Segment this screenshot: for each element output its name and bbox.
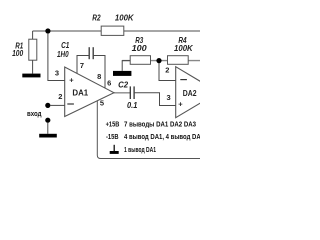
svg-text:0.1: 0.1 — [127, 100, 138, 110]
resistor R3 — [130, 56, 150, 65]
node input ground terminal — [45, 118, 50, 123]
legend line 3: ground symbol — [113, 145, 115, 151]
svg-text:5: 5 — [100, 99, 104, 108]
minus marker DA1 — [67, 103, 74, 105]
minus marker DA2 — [180, 79, 187, 81]
svg-text:вход: вход — [27, 109, 42, 118]
svg-text:6: 6 — [107, 79, 111, 88]
op-amp DA1 — [65, 67, 114, 117]
resistor R4 — [168, 56, 189, 65]
svg-text:3: 3 — [55, 69, 59, 78]
wire top feedback net R2 row — [33, 30, 200, 32]
wire node B to DA2 pin 2 — [159, 63, 176, 81]
wire C1 left lead to DA1 pin 7 — [77, 56, 89, 74]
resistor R1 — [29, 39, 37, 60]
svg-text:7 выводы DA1 DA2 DA3: 7 выводы DA1 DA2 DA3 — [124, 119, 196, 128]
capacitor C2 — [129, 86, 131, 99]
svg-text:DA2: DA2 — [183, 88, 197, 98]
svg-text:100K: 100K — [115, 13, 134, 23]
svg-text:7: 7 — [80, 61, 84, 70]
wire C1 right lead to DA1 pin 8 — [93, 56, 105, 89]
node A (junction top wire / pin3) — [45, 28, 50, 33]
svg-text:R2: R2 — [92, 13, 101, 23]
node B (junction R3/R4/DA2 pin2) — [156, 58, 161, 63]
ground (R3 left) — [113, 71, 131, 76]
svg-text:+15В: +15В — [106, 119, 120, 128]
wire DA1 output pin 6 — [113, 92, 130, 94]
svg-text:100: 100 — [12, 48, 23, 58]
wire R1 top lead — [32, 31, 34, 39]
svg-text:100K: 100K — [174, 43, 193, 53]
svg-text:100: 100 — [132, 43, 147, 53]
node вход signal terminal — [45, 103, 50, 108]
svg-text:2: 2 — [58, 92, 62, 101]
svg-text:3: 3 — [167, 93, 171, 102]
svg-text:C2: C2 — [118, 79, 128, 89]
capacitor C1 — [88, 47, 90, 59]
wire C2 to DA2 pin 3 — [134, 93, 176, 106]
wire R1 bottom lead — [32, 60, 34, 73]
svg-text:+: + — [69, 76, 74, 85]
svg-text:DA1: DA1 — [72, 88, 88, 98]
svg-text:+: + — [178, 99, 183, 108]
wire input to DA1 pin 2 — [50, 104, 65, 106]
svg-text:2: 2 — [165, 66, 169, 75]
op-amp DA2 — [176, 67, 219, 118]
svg-text:8: 8 — [97, 72, 101, 81]
wire node A to DA1 pin 3 — [48, 33, 65, 81]
svg-text:4 вывод DA1, 4 вывод DA2: 4 вывод DA1, 4 вывод DA2 — [124, 132, 200, 141]
ground (input) — [39, 134, 57, 138]
wire ground to R3 — [122, 61, 130, 71]
wire input ground lead — [47, 122, 49, 133]
svg-text:1 вывод DA1: 1 вывод DA1 — [124, 145, 157, 154]
wire DA1 pin 5 down + legend box border — [97, 101, 200, 159]
wire R3 R4 row — [122, 60, 200, 62]
svg-text:1Н0: 1Н0 — [57, 49, 69, 59]
ground (below R1) — [22, 74, 40, 78]
svg-text:-15В: -15В — [106, 132, 119, 141]
resistor R2 — [101, 26, 124, 35]
